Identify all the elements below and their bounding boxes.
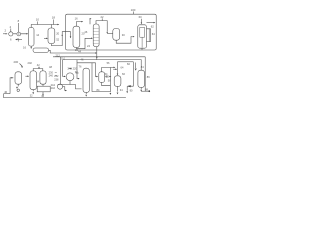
- column C2 with trays: [84, 24, 99, 48]
- column I: [83, 68, 89, 92]
- wire K bottom outlet: [140, 87, 150, 92]
- arrow into G left: [25, 75, 29, 77]
- bus line L1: [49, 50, 97, 54]
- labels 244 242: [51, 83, 56, 90]
- wire bus L2 down corner to D4: [77, 63, 110, 92]
- wire right riser 82 with triangle: [127, 62, 144, 70]
- frame section 100: [66, 8, 157, 50]
- svg-text:34: 34: [120, 88, 123, 92]
- wire G bottom drain: [30, 90, 34, 98]
- node labels 230 240: [49, 65, 57, 77]
- svg-text:210: 210: [61, 56, 66, 60]
- svg-text:24: 24: [87, 44, 90, 48]
- column A (12): [28, 28, 39, 47]
- wire F bottom drain: [16, 84, 19, 91]
- wire F1 top arrow: [75, 16, 84, 26]
- node 6 line down into valve: [18, 19, 20, 33]
- wire C2 top to node 22 then drop to D2: [96, 15, 113, 34]
- bottom bus wire: [4, 94, 126, 98]
- wire D2 bottom to column E: [116, 36, 134, 43]
- wire P2 bottom elbow: [58, 81, 82, 89]
- svg-text:6: 6: [10, 38, 12, 42]
- vessel F (feed drum lower left): [15, 72, 22, 84]
- pump P2 circle: [62, 70, 78, 81]
- wire entering C2 top from left: [90, 18, 92, 24]
- node 200 pointer: [14, 60, 23, 68]
- svg-text:42: 42: [37, 63, 40, 67]
- svg-text:240: 240: [49, 74, 54, 78]
- svg-text:56: 56: [107, 61, 110, 65]
- svg-text:100: 100: [131, 8, 136, 12]
- svg-text:244: 244: [51, 83, 56, 87]
- wire D4 top loop: [102, 67, 114, 71]
- svg-text:16: 16: [23, 45, 26, 49]
- wire feed to column A: [13, 33, 28, 35]
- svg-text:46: 46: [84, 30, 87, 34]
- svg-text:238: 238: [54, 78, 59, 81]
- node 58 label: [108, 79, 111, 83]
- wire C2 bottom down to bus: [96, 47, 98, 60]
- svg-text:2: 2: [5, 29, 7, 33]
- valve V1: [17, 32, 21, 41]
- svg-text:84: 84: [141, 65, 144, 69]
- column G: [30, 71, 37, 90]
- svg-text:242: 242: [51, 86, 56, 90]
- svg-text:20: 20: [56, 31, 59, 35]
- svg-text:66: 66: [122, 72, 125, 76]
- svg-text:76: 76: [79, 65, 82, 69]
- wire J bottom: [117, 86, 124, 94]
- wire long vertical from node 82 corner: [127, 62, 133, 87]
- wire G top over to H top: [33, 69, 43, 71]
- wire column A top to line 10: [31, 25, 58, 28]
- drum D1: [33, 48, 49, 52]
- drum D2: [113, 28, 125, 40]
- pump P3: [57, 84, 67, 91]
- node 2 feed arrow: [3, 29, 7, 35]
- wire D4 bottom across: [97, 82, 111, 92]
- column B (50): [48, 28, 60, 44]
- svg-text:46: 46: [81, 58, 84, 62]
- svg-text:58: 58: [108, 79, 111, 83]
- node 40 outlet left: [4, 90, 11, 94]
- svg-text:34: 34: [36, 79, 39, 83]
- node 10 tick: [36, 18, 40, 25]
- bus line L3: [63, 58, 141, 71]
- node 18 tick: [52, 16, 56, 25]
- external pipe on E right: [147, 29, 151, 42]
- svg-text:202: 202: [28, 61, 33, 65]
- svg-text:200: 200: [14, 60, 19, 64]
- labels 202/204 above columns G H: [28, 61, 41, 69]
- svg-text:86: 86: [147, 75, 150, 79]
- svg-text:16: 16: [75, 16, 78, 20]
- arrow end of line 10: [57, 24, 59, 26]
- svg-text:52: 52: [56, 37, 59, 41]
- svg-text:30: 30: [122, 33, 125, 37]
- wire from L3 corner down to column I: [76, 60, 82, 80]
- node 220 label: [69, 66, 78, 70]
- wire left drop pair: [56, 53, 63, 84]
- svg-text:50: 50: [76, 71, 79, 75]
- svg-text:48: 48: [49, 65, 52, 69]
- svg-text:62: 62: [151, 24, 154, 28]
- svg-text:10: 10: [36, 18, 40, 22]
- label below R1: [41, 94, 44, 98]
- svg-text:246: 246: [68, 67, 73, 71]
- wire F1 bottom to C2: [75, 38, 93, 53]
- wire into F from left: [10, 77, 13, 94]
- svg-text:64: 64: [152, 32, 155, 36]
- svg-text:64: 64: [121, 66, 124, 70]
- wire into vessel J from bus: [113, 62, 133, 76]
- svg-text:82: 82: [127, 62, 130, 66]
- svg-text:44: 44: [78, 50, 81, 54]
- column K: [138, 70, 150, 87]
- svg-text:22: 22: [101, 15, 104, 19]
- wire I bottom drain: [85, 92, 87, 96]
- svg-text:4: 4: [10, 25, 12, 29]
- node 54 label: [105, 72, 108, 76]
- svg-text:8: 8: [18, 19, 20, 23]
- wire E bottom: [141, 48, 143, 50]
- drum D4: [99, 72, 105, 83]
- wire column A bottom to drum: [23, 45, 32, 49]
- svg-text:8: 8: [18, 38, 20, 42]
- wire B top riser: [50, 25, 52, 29]
- stream 16 arrow out left: [15, 38, 22, 42]
- column E with inner packing: [138, 25, 147, 48]
- svg-text:32: 32: [30, 95, 33, 98]
- bus line L2: [53, 57, 145, 91]
- svg-text:90: 90: [130, 89, 133, 93]
- svg-text:18: 18: [52, 16, 56, 20]
- node 210 curve label: [61, 56, 66, 60]
- wire B bottom to riser 54: [51, 32, 71, 46]
- labels 246 234 236: [54, 67, 72, 82]
- reboiler rect R1: [37, 84, 50, 95]
- vessel J: [114, 72, 125, 86]
- column F1 (frame first column): [73, 26, 85, 47]
- node 62 arrow to frame edge: [147, 22, 156, 36]
- arrow into B left: [44, 38, 48, 40]
- svg-text:14: 14: [36, 33, 39, 37]
- node 4 vertical feed into pump: [10, 25, 12, 32]
- node 60 into column E: [139, 15, 143, 24]
- column H: [36, 71, 46, 84]
- node 56 label: [107, 61, 110, 65]
- svg-text:60: 60: [139, 15, 142, 19]
- wire drop to bottom bus node 90: [126, 86, 133, 93]
- pump P1: [9, 32, 13, 42]
- wire D4 outlet with valve: [105, 68, 112, 95]
